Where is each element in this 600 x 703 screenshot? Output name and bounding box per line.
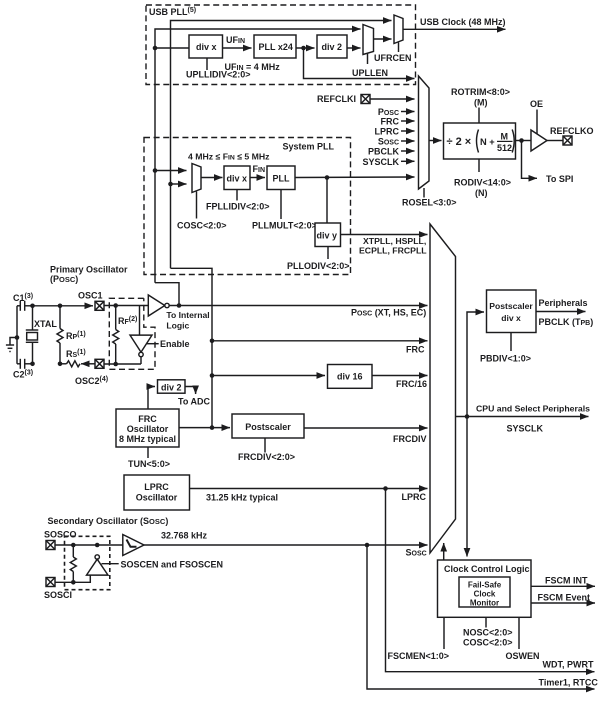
- svg-text:REFCLKO: REFCLKO: [550, 126, 594, 136]
- wire REFCLKI to REFCLK mux: [370, 98, 415, 100]
- svg-text:RODIV<14:0>: RODIV<14:0>: [454, 178, 511, 188]
- wire OSC2 bottom line: [81, 363, 95, 365]
- svg-text:OE: OE: [530, 99, 543, 109]
- svg-text:PLL x24: PLL x24: [259, 42, 293, 52]
- svg-text:ROTRIM<8:0>: ROTRIM<8:0>: [451, 87, 510, 97]
- svg-text:Peripherals: Peripherals: [539, 298, 588, 308]
- svg-text:FSCM Event: FSCM Event: [538, 593, 591, 603]
- svg-text:FRC/16: FRC/16: [396, 379, 427, 389]
- wire SOSCO line to buffer: [55, 544, 123, 546]
- wire OSWEN stub: [518, 617, 520, 649]
- node Posc tap to USB PLL div x: [155, 47, 189, 49]
- svg-text:System PLL: System PLL: [283, 142, 335, 152]
- svg-text:Postscaler: Postscaler: [489, 301, 533, 311]
- svg-text:CPU and Select Peripherals: CPU and Select Peripherals: [476, 404, 590, 414]
- wire USB Clock output: [403, 28, 506, 30]
- svg-text:To Internal: To Internal: [166, 310, 209, 320]
- svg-text:PLLMULT<2:0>: PLLMULT<2:0>: [252, 221, 317, 231]
- wire UPLLIDIV select stub: [206, 58, 208, 70]
- wire Enable stub: [147, 343, 159, 345]
- svg-text:Secondary Oscillator (SOSC): Secondary Oscillator (SOSC): [48, 516, 169, 526]
- wire OSC1 to inverter: [104, 305, 148, 307]
- wire PLL x24 to div 2: [296, 47, 315, 49]
- svg-text:512: 512: [497, 143, 512, 153]
- wire FRC rail top run to UFRCEN mux: [171, 21, 392, 269]
- wire UFRCEN select stub: [398, 43, 400, 53]
- svg-text:WDT, PWRT: WDT, PWRT: [543, 660, 594, 670]
- wire PBDIV select stub: [510, 333, 512, 352]
- wire TUN select stub: [147, 447, 149, 458]
- wire div 2 To ADC: [185, 387, 196, 395]
- wire RODIV stub: [478, 159, 480, 172]
- resistor sosc feedback: [72, 545, 74, 557]
- svg-text:FRC: FRC: [138, 414, 157, 424]
- svg-text:Logic: Logic: [166, 321, 189, 331]
- wire SOSCI line: [55, 575, 90, 582]
- svg-text:LPRC: LPRC: [375, 127, 400, 137]
- wire ROSEL select stub: [423, 188, 425, 198]
- mux UPLLEN: [363, 25, 374, 55]
- svg-text:XTPLL, HSPLL,: XTPLL, HSPLL,: [363, 236, 426, 246]
- svg-text:Timer1, RTCC: Timer1, RTCC: [539, 678, 599, 688]
- divider div x (System PLL): [224, 166, 250, 190]
- svg-text:Primary Oscillator: Primary Oscillator: [50, 265, 128, 275]
- inverter enable: [139, 306, 141, 336]
- wire FPLLIDIV select stub: [236, 190, 238, 201]
- svg-text:FRC: FRC: [381, 117, 400, 127]
- svg-text:div y: div y: [317, 231, 338, 241]
- svg-text:Monitor: Monitor: [470, 599, 499, 608]
- svg-text:COSC<2:0>: COSC<2:0>: [463, 638, 513, 648]
- PLL x24 block: [254, 35, 296, 58]
- svg-text:div 16: div 16: [337, 372, 363, 382]
- node PLL output junction: [325, 175, 330, 180]
- svg-text:UPLLIDIV<2:0>: UPLLIDIV<2:0>: [186, 70, 251, 80]
- node USB PLL output junction: [301, 46, 306, 51]
- wire UPLLEN select stub: [367, 53, 369, 64]
- block Postscaler (FRCDIV): [232, 414, 304, 438]
- wire LPRC to SYSCLK mux: [190, 488, 428, 490]
- wire PLLMULT select stub: [280, 190, 282, 220]
- buffer sosc schmitt: [123, 535, 144, 556]
- svg-text:div x: div x: [196, 42, 217, 52]
- svg-text:PBCLK: PBCLK: [368, 147, 399, 157]
- svg-text:UPLLEN: UPLLEN: [352, 68, 388, 78]
- wire Postscaler to SYSCLK mux: [304, 427, 428, 429]
- block Fail-Safe Clock Monitor: [459, 577, 510, 607]
- mux COSC input select: [192, 164, 201, 193]
- block Clock Control Logic: [438, 560, 532, 617]
- wire FSCMEN stub: [443, 617, 445, 649]
- sosc dashed enclosure: [65, 536, 110, 589]
- svg-text:(M): (M): [474, 98, 488, 108]
- svg-text:FSCM INT: FSCM INT: [545, 576, 588, 586]
- divider div y: [315, 223, 341, 247]
- block PLL: [267, 166, 295, 190]
- wire buffer to REFCLKO pin: [547, 140, 563, 142]
- divider div 16: [328, 365, 373, 389]
- svg-text:SOSCO: SOSCO: [44, 530, 77, 540]
- svg-text:div x: div x: [501, 313, 521, 323]
- USB PLL dashed enclosure: [146, 5, 416, 85]
- block Postscaler div x: [487, 290, 537, 333]
- wire USB PLL clock down to REFCLK mux: [304, 48, 415, 79]
- svg-text:FPLLIDIV<2:0>: FPLLIDIV<2:0>: [206, 202, 270, 212]
- svg-text:FRCDIV: FRCDIV: [393, 434, 427, 444]
- svg-text:PLL: PLL: [273, 174, 291, 184]
- wire PLL output to REFCLK mux: [295, 176, 415, 179]
- wire div x to PLL: [250, 177, 265, 179]
- wire Sosc to SYSCLK mux: [144, 544, 428, 546]
- wire SYSCLK output: [456, 416, 589, 418]
- svg-text:PBDIV<1:0>: PBDIV<1:0>: [480, 354, 531, 364]
- svg-text:Clock Control Logic: Clock Control Logic: [444, 564, 530, 574]
- wire FSCM INT: [531, 585, 595, 587]
- wire To SPI: [522, 141, 538, 179]
- wire Posc rail top run to UPLLEN mux: [155, 29, 361, 283]
- wire NOSC COSC stub: [485, 617, 487, 627]
- wire div 16 to SYSCLK mux: [372, 375, 428, 377]
- mux UFRCEN: [394, 15, 403, 44]
- wire PLLODIV select stub: [327, 247, 329, 260]
- wire Posc tap to COSC mux: [155, 170, 187, 172]
- wire clock control to mux select: [443, 543, 445, 560]
- wire FSCM Event: [531, 602, 595, 604]
- System PLL dashed enclosure: [144, 138, 351, 275]
- svg-text:COSC<2:0>: COSC<2:0>: [177, 221, 227, 231]
- svg-text:M: M: [501, 132, 509, 142]
- inverter sosc enable: [95, 555, 99, 559]
- buffer OE tri-state: [531, 130, 547, 151]
- divider div 2 (USB PLL): [317, 35, 347, 58]
- svg-text:div x: div x: [227, 174, 248, 184]
- mux SYSCLK source: [430, 224, 456, 553]
- wire COSC mux to div x: [201, 177, 223, 179]
- ground: [15, 335, 20, 340]
- wire divider to OE buffer: [516, 140, 532, 142]
- svg-text:÷ 2 ×: ÷ 2 ×: [447, 136, 472, 148]
- wire div y to SYSCLK mux: [341, 234, 428, 236]
- svg-text:SYSCLK: SYSCLK: [507, 424, 544, 434]
- wire PLL junction down to div y: [326, 178, 328, 224]
- svg-text:(N): (N): [475, 188, 488, 198]
- wire LPRC to WDT: [386, 489, 595, 672]
- wire SYSCLK down to clock control: [466, 417, 468, 557]
- block LPRC Oscillator: [124, 475, 190, 510]
- divider div x (USB PLL): [189, 35, 223, 58]
- svg-text:NOSC<2:0>: NOSC<2:0>: [463, 628, 513, 638]
- feedback dashed enclosure: [109, 298, 155, 369]
- svg-text:TUN<5:0>: TUN<5:0>: [128, 459, 170, 469]
- svg-text:(POSC): (POSC): [50, 274, 78, 284]
- svg-text:Postscaler: Postscaler: [245, 422, 291, 432]
- svg-text:LPRC: LPRC: [144, 482, 169, 492]
- svg-text:FRC: FRC: [406, 344, 425, 354]
- wire left rail C1-C2: [16, 306, 18, 364]
- inverter posc input: [148, 295, 165, 316]
- svg-text:OSC1: OSC1: [78, 291, 103, 301]
- svg-text:SOSCEN and FSOSCEN: SOSCEN and FSOSCEN: [121, 560, 224, 570]
- wire FRCDIV select stub: [264, 438, 266, 453]
- wire FRC to div 2: [148, 387, 155, 410]
- wire OE stub: [536, 110, 538, 135]
- svg-text:N +: N +: [480, 137, 495, 147]
- svg-text:LPRC: LPRC: [402, 492, 427, 502]
- wire Posc branch up: [155, 283, 179, 306]
- svg-text:Oscillator: Oscillator: [127, 424, 169, 434]
- svg-text:UFRCEN: UFRCEN: [374, 53, 412, 63]
- svg-text:To SPI: To SPI: [546, 174, 573, 184]
- wire PBCLK output: [536, 311, 586, 313]
- divider div 2 (ADC): [158, 380, 186, 393]
- wire FRC to div 16: [212, 375, 325, 377]
- wire Sosc to Timer1: [367, 545, 595, 689]
- svg-text:OSWEN: OSWEN: [506, 651, 540, 661]
- wire ROTRIM stub: [478, 108, 480, 124]
- svg-text:To ADC: To ADC: [178, 397, 210, 407]
- svg-text:XTAL: XTAL: [34, 319, 57, 329]
- svg-text:Oscillator: Oscillator: [136, 493, 178, 503]
- svg-text:SOSCI: SOSCI: [44, 590, 72, 600]
- wire div 2 to UPLLEN mux: [347, 47, 361, 49]
- svg-text:PLLODIV<2:0>: PLLODIV<2:0>: [287, 261, 350, 271]
- svg-text:USB Clock (48 MHz): USB Clock (48 MHz): [420, 17, 506, 27]
- wire UPLLEN mux to UFRCEN mux: [374, 38, 392, 40]
- wire div x to PLL x24: [223, 47, 252, 49]
- wire SYSCLK up to PB postscaler: [467, 312, 484, 417]
- svg-text:div 2: div 2: [161, 383, 182, 393]
- wire SOSCEN stub: [102, 563, 119, 565]
- wire Posc line to SYSCLK mux: [169, 305, 427, 307]
- mux REFCLK source (ROSEL): [419, 76, 430, 189]
- wire OSC1 top line: [33, 305, 94, 307]
- svg-text:FSCMEN<1:0>: FSCMEN<1:0>: [388, 651, 450, 661]
- svg-text:8 MHz typical: 8 MHz typical: [119, 434, 176, 444]
- svg-text:Clock: Clock: [474, 590, 496, 599]
- wire FRC to SYSCLK mux: [212, 340, 428, 342]
- wire FRC rail elbow: [171, 268, 213, 427]
- svg-text:Fail-Safe: Fail-Safe: [468, 581, 502, 590]
- wire FRC tap to COSC mux: [171, 183, 187, 185]
- svg-text:SYSCLK: SYSCLK: [362, 157, 399, 167]
- svg-text:32.768 kHz: 32.768 kHz: [161, 531, 208, 541]
- wire FRC output to Postscaler: [179, 427, 230, 429]
- wire COSC select stub: [196, 192, 198, 219]
- svg-text:Enable: Enable: [160, 339, 190, 349]
- svg-text:ECPLL, FRCPLL: ECPLL, FRCPLL: [359, 246, 427, 256]
- svg-text:31.25 kHz typical: 31.25 kHz typical: [206, 493, 278, 503]
- svg-text:ROSEL<3:0>: ROSEL<3:0>: [402, 198, 457, 208]
- svg-text:div 2: div 2: [322, 42, 343, 52]
- wire OSC2 to enable inverter: [104, 363, 141, 365]
- node REFCLKO junction: [519, 138, 524, 143]
- svg-text:FRCDIV<2:0>: FRCDIV<2:0>: [238, 452, 295, 462]
- block FRC Oscillator: [116, 409, 179, 447]
- svg-text:REFCLKI: REFCLKI: [317, 94, 356, 104]
- wire ROSEL mux to divider: [429, 140, 442, 142]
- block reference clock divider: [444, 123, 516, 159]
